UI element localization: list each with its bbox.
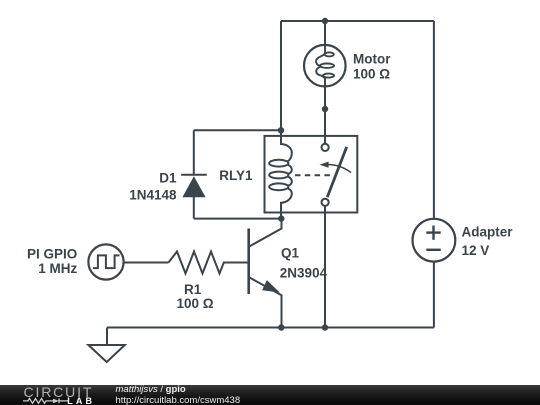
wire adapter bottom to bottom rail xyxy=(433,262,435,328)
relay RLY1 switch bottom terminal xyxy=(322,199,329,206)
svg-text:PI GPIO: PI GPIO xyxy=(27,246,77,261)
svg-text:100 Ω: 100 Ω xyxy=(353,67,390,82)
svg-text:1 MHz: 1 MHz xyxy=(38,261,77,276)
ground xyxy=(88,345,124,362)
svg-text:12 V: 12 V xyxy=(462,243,490,258)
motor M1 xyxy=(304,45,346,87)
footer url line xyxy=(116,395,241,405)
wire diode top vertical xyxy=(193,130,195,174)
relay RLY1 switch blade xyxy=(327,147,346,197)
wire motor bottom to relay switch xyxy=(324,87,326,144)
transistor Q1 xyxy=(249,219,282,328)
wire diode bottom vertical xyxy=(193,197,195,219)
node top rail / motor xyxy=(322,18,328,24)
svg-text:D1: D1 xyxy=(159,170,177,185)
svg-text:1N4148: 1N4148 xyxy=(129,188,177,203)
relay RLY1 switch top terminal xyxy=(322,144,329,151)
relay RLY1 arrow xyxy=(328,165,352,173)
source V1 PI GPIO xyxy=(88,244,123,279)
node coil bottom xyxy=(278,215,284,221)
footer bar xyxy=(0,385,540,405)
CircuitLab logo text xyxy=(24,384,94,400)
node emitter bottom xyxy=(278,324,284,330)
resistor R1 xyxy=(169,252,249,274)
adapter V2 xyxy=(413,219,456,262)
svg-text:Motor: Motor xyxy=(353,51,391,66)
relay RLY1 box xyxy=(265,136,358,213)
wire diode bottom to coil bottom node xyxy=(194,218,281,220)
svg-text:RLY1: RLY1 xyxy=(219,168,253,183)
wire right rail down to adapter xyxy=(433,21,435,219)
node switch bottom rail xyxy=(322,324,328,330)
wire motor top stub xyxy=(324,21,326,45)
node motor bottom terminal xyxy=(322,106,328,112)
svg-text:2N3904: 2N3904 xyxy=(280,266,328,281)
wire top rail xyxy=(281,20,434,22)
svg-text:100 Ω: 100 Ω xyxy=(176,296,213,311)
wire coil node to diode top xyxy=(194,129,281,131)
relay RLY1 dashed actuator link xyxy=(295,174,331,176)
footer author line xyxy=(116,384,186,395)
svg-text:Q1: Q1 xyxy=(281,245,300,260)
wire left feed from top rail to relay coil node xyxy=(280,21,282,130)
CircuitLab logo mini circuit + LAB xyxy=(0,385,95,405)
wire relay switch bottom to bottom rail xyxy=(324,206,326,327)
node junction dots xyxy=(278,18,328,331)
svg-text:R1: R1 xyxy=(184,282,202,297)
svg-text:Adapter: Adapter xyxy=(462,224,514,239)
relay RLY1 coil xyxy=(269,130,292,218)
node coil top xyxy=(278,127,284,133)
wire source to resistor xyxy=(124,262,169,264)
wire bottom rail xyxy=(107,327,434,329)
wire ground drop xyxy=(106,328,108,346)
diode D1 xyxy=(181,175,207,198)
